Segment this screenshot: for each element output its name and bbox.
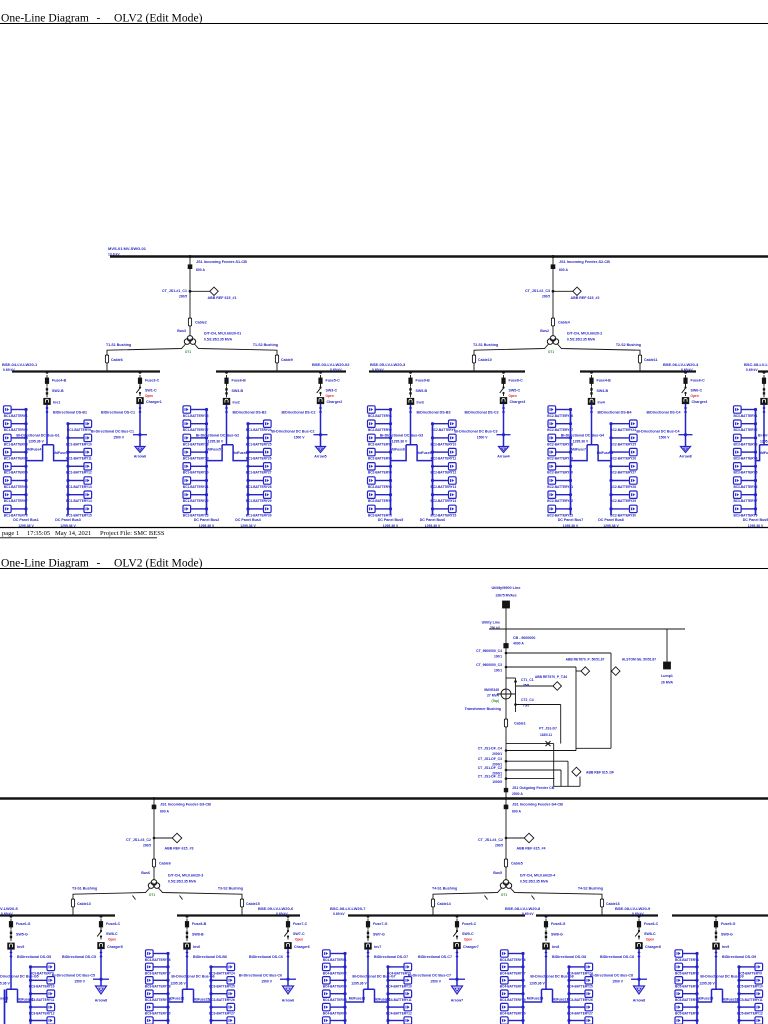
wire charger Charger2 to DC bus [320,404,322,447]
svg-text:D/T-CH, MV,0.66/20-3: D/T-CH, MV,0.66/20-3 [168,874,203,878]
svg-text:BiDirectional DS-G7: BiDirectional DS-G7 [374,955,408,959]
battery BC1-BATTERY12 [66,463,92,475]
feeder JS1 S4 vertical wire [505,800,507,881]
battery BC5-BATTERY9 [737,963,762,975]
svg-text:BC1-BATTERY11: BC1-BATTERY11 [66,457,92,461]
svg-text:CT_9600000_C3: CT_9600000_C3 [476,663,502,667]
svg-text:Bi-Directional DC Bus-C5: Bi-Directional DC Bus-C5 [52,974,95,978]
load Lump1 [664,662,671,669]
svg-text:Open: Open [145,394,153,398]
battery BC1-BATTERY6 [4,477,28,489]
svg-text:CT2_C4: CT2_C4 [521,698,534,702]
svg-text:BC1-BATTERY5: BC1-BATTERY5 [4,471,28,475]
disconnect BiDirectional DS-B1 [46,406,49,413]
svg-text:BC3-BATTERY17: BC3-BATTERY17 [145,971,171,975]
battery BC5-BATTERY10 [737,977,763,989]
wire relay mesh lower [554,785,580,787]
ground arrow Arrow6 [283,986,294,994]
DC panel wire right G7 [387,967,389,1024]
cable Cable9 [275,355,278,363]
ground arrow Arrow4 [499,447,509,453]
svg-text:Cable6: Cable6 [159,862,171,866]
svg-text:BiDirectional DS-B3: BiDirectional DS-B3 [417,411,451,415]
svg-text:Bi-Directional DC Bus-C6: Bi-Directional DC Bus-C6 [239,974,282,978]
fuse Fuse7-G [367,915,370,918]
svg-text:BC1-BATTERY2: BC1-BATTERY2 [4,428,28,432]
svg-text:Inv9: Inv9 [722,945,729,949]
battery BC2-BATTERY22 [547,491,573,503]
disconnect BiDirectional DS-C4 [684,406,687,413]
battery BC3-BATTERY18 [145,977,171,989]
wire from Inv8 to DC bridge [545,949,547,989]
wire T3-S1 bushing branch [73,888,150,915]
svg-text:SW9-G: SW9-G [721,933,733,937]
svg-text:BC4-BATTERY18: BC4-BATTERY18 [500,985,526,989]
svg-text:MdFuse16: MdFuse16 [374,998,391,1002]
switch SW [763,386,765,397]
fuse Fuse4-B [590,371,593,374]
svg-text:BC1-BATTERY8: BC1-BATTERY8 [4,513,28,517]
battery BC3-BATTERY5 [733,463,757,475]
svg-text:MdFuse4: MdFuse4 [27,448,42,452]
wire charger Charger8 to DC bus [638,949,640,987]
battery BC4-BATTERY19 [500,990,526,1002]
fuse Fuse6-B [225,371,228,374]
charger Charger5 [98,943,105,949]
battery BC3-BATTERY16 [145,950,171,962]
svg-text:BC2-BATTERY7: BC2-BATTERY7 [368,499,392,503]
svg-text:Bi-Directional DC Bus-C8: Bi-Directional DC Bus-C8 [590,974,633,978]
svg-text:Inv4: Inv4 [598,401,605,405]
battery BC4-BATTERY26 [567,990,593,1002]
svg-text:BC2-BATTERY6: BC2-BATTERY6 [368,485,392,489]
battery BC4-BATTERY21 [500,1017,526,1024]
svg-text:BC2-BATTERY8: BC2-BATTERY8 [368,513,392,517]
svg-text:0.69 kV: 0.69 kV [372,368,384,372]
svg-text:BC3-BATTERY12: BC3-BATTERY12 [29,1012,55,1016]
svg-text:BC3-BATTERY6: BC3-BATTERY6 [733,485,757,489]
switch SW3-C (open) [320,385,322,388]
battery BC4-BATTERY9 [386,963,411,975]
svg-text:DC Panel Bus2: DC Panel Bus2 [194,518,220,522]
switch SW6-C (open) [685,385,687,388]
svg-text:Project File: SMC BESS: Project File: SMC BESS [100,530,165,537]
svg-text:T3-S2 Bushing: T3-S2 Bushing [218,887,243,891]
utility main wire [505,608,507,798]
svg-text:1500 V: 1500 V [612,980,623,984]
svg-text:CT1_C1: CT1_C1 [521,678,534,682]
svg-text:ABB REF 615_#3: ABB REF 615_#3 [165,847,194,851]
battery BC4-BATTERY24 [567,963,593,975]
svg-text:BC5-BATTERY12: BC5-BATTERY12 [737,1012,763,1016]
disconnect BiDirectional DS-G8 [545,951,548,958]
DC panel wire left G7 [344,954,346,1024]
battery BC2-BATTERY29 [609,491,637,503]
CT CT_JS1-DF_C3 [505,760,508,763]
wire to relay ABB REF 615_#4 [506,837,524,839]
svg-text:BC4-BATTERY25: BC4-BATTERY25 [567,985,593,989]
svg-text:Bi-Directional DC Bus-G2: Bi-Directional DC Bus-G2 [196,434,239,438]
ground arrow Arrow8 [634,986,645,994]
battery BC4-BATTERY1 [323,950,347,962]
svg-text:1295.36 V: 1295.36 V [351,982,367,986]
battery BC2-BATTERY17 [547,420,573,432]
svg-text:JS1 Incoming Feeder-S4-CB: JS1 Incoming Feeder-S4-CB [512,803,563,807]
wire DC bridge G3 [391,445,433,461]
wire DC bridge G7 [345,989,388,1002]
battery BC2-BATTERY23 [547,505,573,517]
charger Charger2 [317,398,324,404]
svg-text:OLV2 (Edit Mode): OLV2 (Edit Mode) [114,557,203,570]
svg-text:One-Line Diagram: One-Line Diagram [1,12,89,25]
DC panel wire DC Panel Bus5 [390,410,392,516]
battery BC2-BATTERY14 [431,491,457,503]
battery BC2-BATTERY10 [431,434,457,446]
charger Charger3 [500,398,507,404]
svg-text:Bi-Direct: Bi-Direct [758,434,768,438]
wire T1-S1 bushing branch [107,344,186,371]
svg-text:200/5: 200/5 [179,295,187,299]
transformer 9MVE345 [497,689,515,699]
svg-text:BiDirectional DS-C8: BiDirectional DS-C8 [600,955,634,959]
battery BC1-BATTERY18 [183,434,209,446]
cable Cable13 [71,899,74,907]
battery BC4-BATTERY6 [323,1017,347,1024]
CT CT_9600000_C3 [505,666,508,669]
DC panel wire DC Panel Bus8 [610,424,612,515]
svg-text:9MVE345: 9MVE345 [484,688,499,692]
svg-text:Bi-Directional DC Bus-C7: Bi-Directional DC Bus-C7 [408,974,451,978]
svg-text:T4-S1 Bushing: T4-S1 Bushing [432,887,457,891]
svg-text:BC5-BATTERY5: BC5-BATTERY5 [675,1012,699,1016]
svg-text:Charger1: Charger1 [146,400,162,404]
battery BC2-BATTERY24 [609,420,637,432]
svg-text:BC1-BATTERY10: BC1-BATTERY10 [66,442,92,446]
switch SW4-B [591,386,593,397]
battery BC3-BATTERY26 [209,990,235,1002]
svg-text:Fuse7-C: Fuse7-C [293,922,308,926]
svg-text:100/1: 100/1 [494,669,502,673]
bus MVS-01 MV-SWG-01 [110,255,768,257]
wire T4-S2 bushing branch [510,888,602,915]
battery BC3-BATTERY4 [733,448,757,460]
battery BC2-BATTERY27 [609,463,637,475]
svg-text:600 A: 600 A [512,810,521,814]
DC panel wire DC Panel Bus1 [25,410,27,516]
svg-text:Fuse8-C: Fuse8-C [644,922,659,926]
fuse Fuse8-B [186,915,189,918]
CT CT_JS1-DF_C2 [505,769,508,772]
svg-text:MdFuse9: MdFuse9 [417,451,432,455]
battery BC3-BATTERY9 [29,963,55,975]
svg-text:1295.36 V: 1295.36 V [0,982,10,986]
svg-text:OT1: OT1 [548,350,554,354]
svg-text:DC Panel Bus3: DC Panel Bus3 [55,518,81,522]
svg-text:CT_JS1-#4_C2: CT_JS1-#4_C2 [478,838,503,842]
svg-text:1295.36 V: 1295.36 V [28,440,44,444]
svg-text:ABB REF 615_#1: ABB REF 615_#1 [208,296,237,300]
svg-text:Inv1: Inv1 [53,401,60,405]
battery BC4-BATTERY3 [323,977,347,989]
switch SW5-G [10,930,12,941]
disconnect BiDirectional DS-B6 [186,951,189,958]
svg-text:BC2-BATTERY27: BC2-BATTERY27 [610,471,636,475]
svg-text:D/T-CH, MV,0.66/20-2: D/T-CH, MV,0.66/20-2 [567,332,602,336]
svg-text:Bi-Directional DC Bus-G1: Bi-Directional DC Bus-G1 [16,434,59,438]
battery BC1-BATTERY13 [66,477,92,489]
disconnect BiDirectional DS- [763,406,766,413]
svg-text:JS1 Incoming Feeder-S3-CB: JS1 Incoming Feeder-S3-CB [160,803,211,807]
svg-text:Cable6: Cable6 [111,358,123,362]
battery BC3-BATTERY19 [145,990,171,1002]
svg-text:0.69 kV: 0.69 kV [333,912,345,916]
svg-text:BiDirectional DS-B1: BiDirectional DS-B1 [53,411,87,415]
battery BC1-BATTERY5 [4,463,28,475]
svg-text:BiDirectional DS-B6: BiDirectional DS-B6 [193,955,227,959]
wire T3-S2 bushing branch [158,888,242,915]
wire from Inv9 to DC bridge [715,949,717,989]
DC panel wire left G8 [522,954,524,1024]
svg-text:DC Panel Bus6: DC Panel Bus6 [420,518,446,522]
wire CT_C4 to relay mesh [506,652,611,654]
bus BSE-08-LV-LW20-9 [672,914,768,916]
battery BC3-BATTERY24 [209,963,235,975]
svg-text:DC Panel Bus4: DC Panel Bus4 [235,518,261,522]
svg-text:BSE-03-LV-LW20-02: BSE-03-LV-LW20-02 [312,362,350,367]
wire DC bridge G9 [697,989,739,1002]
battery BC1-BATTERY19 [183,448,209,460]
DC panel wire left G6 [167,954,169,1024]
battery BC1-BATTERY24 [246,420,272,432]
wire DC bridge G6 [168,989,211,1002]
svg-text:75/5: 75/5 [523,683,529,687]
svg-text:CT_JS1-#3_C2: CT_JS1-#3_C2 [126,838,151,842]
svg-text:OT1: OT1 [185,350,191,354]
svg-text:0.69 kV: 0.69 kV [276,912,288,916]
wire from Inv2 to DC bridge [226,405,228,445]
svg-text:CT_JS1-DF_C2: CT_JS1-DF_C2 [478,766,502,770]
svg-text:Arrow5: Arrow5 [314,455,326,459]
inverter Inv3 [407,398,414,404]
relay ABB REF 615_#4 [524,833,534,843]
battery BC1-BATTERY11 [66,448,92,460]
breaker CB - 9600000 [504,644,508,648]
wire from Inv5 to DC bridge [10,949,12,989]
svg-text:Cable1: Cable1 [514,722,526,726]
relay ABB REF 615_DF [572,767,581,776]
svg-text:Bi-Directional DC Bus-C4: Bi-Directional DC Bus-C4 [636,430,679,434]
wire from Inv3 to DC bridge [410,405,412,445]
svg-text:T2-S1 Bushing: T2-S1 Bushing [473,343,498,347]
battery BC1-BATTERY2 [4,420,28,432]
wire DC bridge G8 [523,989,569,1002]
svg-text:Open: Open [691,394,699,398]
bus V-LW20-5 [0,914,115,916]
svg-text:ABB RET670_P_T.84: ABB RET670_P_T.84 [535,675,567,679]
svg-text:BSE-09-LV-LW20-6: BSE-09-LV-LW20-6 [258,906,294,911]
svg-text:BSE-06-LV-LW20-4: BSE-06-LV-LW20-4 [663,362,699,367]
svg-text:BC1-BATTERY1: BC1-BATTERY1 [4,414,28,418]
svg-text:BC4-BATTERY1: BC4-BATTERY1 [323,958,347,962]
page 1 footer underline [0,537,157,539]
battery BC2-BATTERY16 [547,406,573,418]
svg-text:BC5-BATTERY3: BC5-BATTERY3 [675,985,699,989]
battery BC1-BATTERY7 [4,491,28,503]
battery BC2-BATTERY1 [368,406,393,418]
svg-text:Cable10: Cable10 [478,358,492,362]
disconnect BiDirectional DS-C6 [287,951,290,958]
svg-text:BC1-BATTERY21: BC1-BATTERY21 [183,485,209,489]
battery BC1-BATTERY20 [183,463,209,475]
DC panel wire DC Panel Bus7 [570,410,572,516]
inverter Inv7 [365,943,372,949]
svg-text:BSE-08-LV-LW20-9: BSE-08-LV-LW20-9 [615,906,651,911]
CT CT_JS1-DF_C4 [505,749,508,752]
svg-text:Open: Open [509,394,517,398]
svg-text:JS1 Outgoing Feeder CB: JS1 Outgoing Feeder CB [512,786,555,790]
DC panel wire DC Panel Bus9 [755,410,757,516]
battery BC4-BATTERY10 [386,977,412,989]
battery BC3-BATTERY25 [209,977,235,989]
svg-text:Bus3: Bus3 [177,329,186,333]
breaker JS1 Incoming Feeder-S1-CB [188,265,192,269]
battery BC2-BATTERY11 [431,448,457,460]
svg-text:BC1-BATTERY20: BC1-BATTERY20 [183,471,209,475]
svg-text:ABB RET670_P_50/51.87: ABB RET670_P_50/51.87 [566,658,605,662]
charger Charger4 [682,398,689,404]
svg-text:T2-S2 Bushing: T2-S2 Bushing [616,343,641,347]
wire charger Charger4 to DC bus [685,404,687,447]
fuse Fuse5-C [319,371,322,374]
battery BC3-BATTERY13 [29,1017,55,1024]
fuse Fuse7-C [287,915,290,918]
svg-text:BC3-BATTERY4: BC3-BATTERY4 [733,457,757,461]
svg-text:BC2-BATTERY21: BC2-BATTERY21 [547,485,573,489]
CT CT_JS1-#4_C2 [505,837,508,840]
svg-text:0.69 kV: 0.69 kV [330,368,342,372]
svg-text:BC4-BATTERY4: BC4-BATTERY4 [323,998,347,1002]
svg-text:BC3-BATTERY2: BC3-BATTERY2 [733,428,757,432]
battery BC5-BATTERY13 [737,1017,763,1024]
battery BC4-BATTERY12 [386,1003,412,1015]
svg-text:BiDirectional DS-G5: BiDirectional DS-G5 [17,955,51,959]
svg-text:SW7-C: SW7-C [293,932,305,936]
svg-text:Fuse6-C: Fuse6-C [691,379,706,383]
svg-text:BC1-BATTERY15: BC1-BATTERY15 [66,513,92,517]
DC panel wire DC Panel Bus6 [432,424,434,515]
svg-text:ABB REF 615_#4: ABB REF 615_#4 [517,847,546,851]
svg-text:CT_JS1-DF_C1: CT_JS1-DF_C1 [478,775,502,779]
svg-text:BC5-BATTERY1: BC5-BATTERY1 [675,958,699,962]
svg-text:CT_JS1-DF_C4: CT_JS1-DF_C4 [478,747,502,751]
svg-text:Bi-Directional DC Bus-G8: Bi-Directional DC Bus-G8 [530,975,573,979]
wire CT2 loop [516,704,561,706]
transformer D/T-CH, MV,0.66/20-3 [148,880,159,889]
svg-text:MdFuse17: MdFuse17 [552,998,569,1002]
svg-text:DC Panel Bus7: DC Panel Bus7 [558,518,584,522]
wire T2-S2 bushing branch [557,344,640,371]
battery BC1-BATTERY28 [246,477,272,489]
cable Cable1 [504,719,507,727]
transformer D/T-CH, MV,0.66/20-2 [547,336,558,345]
svg-text:200/5: 200/5 [495,844,503,848]
svg-text:BSE-04-LV-LW20-1: BSE-04-LV-LW20-1 [2,362,38,367]
svg-text:BC1-BATTERY17: BC1-BATTERY17 [183,428,209,432]
battery BC2-BATTERY2 [368,420,393,432]
battery BC2-BATTERY6 [368,477,393,489]
svg-text:SW8-C: SW8-C [106,932,118,936]
svg-text:Charger7: Charger7 [463,945,479,949]
svg-text:T1-S1 Bushing: T1-S1 Bushing [106,343,131,347]
svg-text:BC1-BATTERY12: BC1-BATTERY12 [66,471,92,475]
cable Cable14 [431,899,434,907]
battery BC3-BATTERY10 [29,977,55,989]
battery BC1-BATTERY25 [246,434,272,446]
DC panel wire DC Panel Bus4 [247,424,249,515]
svg-text:MdFuse13: MdFuse13 [17,998,34,1002]
svg-text:SW2-B: SW2-B [52,389,64,393]
inverter Inv6 [184,943,191,949]
battery BC1-BATTERY14 [66,491,92,503]
svg-text:BiDirectional DS-C3: BiDirectional DS-C3 [465,411,499,415]
breaker JS1 Outgoing Feeder CB [504,788,508,792]
ground arrow Arrow6 [135,447,145,453]
svg-text:Bi-Directional DC Bus-C3: Bi-Directional DC Bus-C3 [454,430,497,434]
cable Cable4 [551,318,554,326]
svg-text:Fuse9-C: Fuse9-C [462,922,477,926]
inverter Inv2 [223,398,230,404]
svg-text:75/5: 75/5 [523,703,529,707]
DC panel wire right G5 [30,967,32,1024]
svg-text:JS1 Incoming Feeder-S1-CB: JS1 Incoming Feeder-S1-CB [196,260,247,264]
svg-text:BC5-BATTERY11: BC5-BATTERY11 [737,998,763,1002]
svg-text:Bus2: Bus2 [540,329,549,333]
svg-text:BC2-BATTERY5: BC2-BATTERY5 [368,471,392,475]
battery BC1-BATTERY22 [183,491,209,503]
svg-text:Open: Open [646,938,654,942]
svg-text:MdFuse18: MdFuse18 [722,998,739,1002]
wire CT_C3 to relay mesh [506,666,576,668]
svg-text:BC3-BATTERY1: BC3-BATTERY1 [733,414,757,418]
svg-text:BC2-BATTERY24: BC2-BATTERY24 [610,428,636,432]
svg-text:2500 A: 2500 A [512,792,523,796]
wire to relay ABB REF 615_#1 [190,290,210,292]
wire CT1 to relay T.84 [516,685,553,687]
svg-text:DC Panel Bus9: DC Panel Bus9 [743,518,768,522]
fuse Fuse8-G [545,915,548,918]
svg-text:BiDirectional DS-C4: BiDirectional DS-C4 [647,411,681,415]
svg-text:Cable14: Cable14 [437,902,451,906]
svg-text:T4-S2 Bushing: T4-S2 Bushing [578,887,603,891]
svg-text:Cable4: Cable4 [558,321,570,325]
bus BSE-06-LV-LW20-4 [580,370,696,372]
svg-text:BC1-BATTERY13: BC1-BATTERY13 [66,485,92,489]
svg-text:600 A: 600 A [160,810,169,814]
battery BC1-BATTERY9 [66,420,91,432]
charger Charger1 [137,398,144,404]
svg-text:BC2-BATTERY4: BC2-BATTERY4 [368,457,392,461]
svg-text:SW6-C: SW6-C [691,389,703,393]
svg-text:Lump1: Lump1 [661,674,673,678]
svg-text:SW8-C: SW8-C [644,932,656,936]
battery BC2-BATTERY13 [431,477,457,489]
svg-text:Bi-Directional DC Bus-G7: Bi-Directional DC Bus-G7 [352,975,395,979]
svg-text:BC2-BATTERY23: BC2-BATTERY23 [547,513,573,517]
disconnect BiDirectional DS-C7 [456,951,459,958]
svg-text:D/T-CH, MV,0.66/20-01: D/T-CH, MV,0.66/20-01 [204,332,241,336]
battery BC3-BATTERY17 [145,963,171,975]
svg-text:1295.36 V: 1295.36 V [208,440,224,444]
